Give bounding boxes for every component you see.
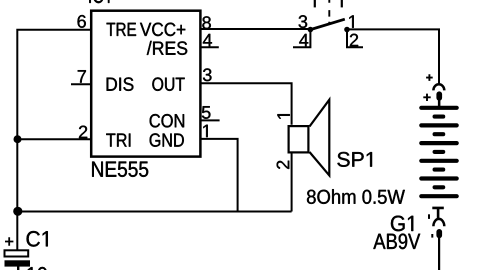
battery cell long bar 2 (421, 123, 456, 127)
battery terminal capsule top (436, 91, 442, 100)
battery plus sign 2 (423, 94, 430, 101)
switch pin label 4 (299, 34, 308, 46)
battery cell long bar 5 (421, 176, 456, 180)
switch linkage dashed line (328, 0, 330, 25)
wire switch pin1 to battery (347, 29, 439, 83)
switch pin 2 stub (347, 30, 363, 48)
speaker pin label 2 (rotated) (277, 161, 290, 169)
C1 value label (partial, cropped at bottom) (28, 267, 58, 270)
switch pin 4 stub (293, 30, 310, 48)
battery value label AB9V (373, 234, 420, 250)
battery cell short bar 2 (435, 132, 444, 136)
battery cell short bar 5 (435, 185, 444, 189)
pin 5 stub (200, 119, 220, 121)
C1 reference label (27, 231, 48, 247)
battery cell long bar 3 (421, 141, 456, 145)
node junction dot at rail/bottom wire (13, 207, 22, 216)
battery terminal stem top (438, 100, 441, 107)
SP1 reference label (337, 152, 372, 167)
NE555 value label (92, 162, 148, 177)
pin 4 stub (200, 46, 219, 48)
pin name TRE (107, 23, 136, 36)
battery clip tick 1 (428, 214, 430, 219)
wire pin8 to switch (200, 28, 312, 30)
pin number 2 (79, 126, 87, 139)
battery G1 plus sign top (426, 74, 433, 81)
pin number 8 (202, 16, 210, 29)
pin name TRI (106, 134, 130, 147)
switch S1 upper pole stub left (314, 0, 316, 7)
speaker SP1 box (289, 126, 309, 152)
pin name CON (150, 114, 184, 127)
speaker pin label 1 (rotated) (277, 114, 289, 118)
wire speaker pin2 down to bottom wire (291, 154, 293, 212)
op-amp U1 : IC1 NE555 body (91, 11, 200, 157)
switch contact dot pin 1 (344, 27, 350, 33)
pin number 6 (78, 15, 86, 28)
switch pin label 3 (299, 15, 308, 28)
capacitor C1 plus sign (5, 237, 13, 245)
battery cell short bar 4 (435, 168, 444, 172)
switch pin label 2 (350, 34, 358, 47)
battery bottom T terminal (432, 208, 444, 218)
pin number 5 (202, 106, 211, 119)
wire pin1 GND down to bottom wire (200, 139, 238, 212)
pin name DIS (107, 77, 134, 90)
battery clip arc bottom (433, 219, 444, 226)
speaker value label 8Ohm 0.5W (307, 189, 405, 204)
switch pin label 1 (349, 15, 353, 27)
battery terminal capsule bottom (436, 229, 442, 238)
battery cell short bar 1 (435, 115, 444, 119)
pin 7 stub (71, 83, 91, 85)
battery cell long bar 4 (421, 159, 456, 163)
pin name /RES (147, 41, 187, 55)
pin name GND (150, 133, 184, 146)
battery clip tick 2 (431, 234, 433, 238)
switch S1 upper pole stub right (341, 0, 343, 7)
battery cell short bar 3 (435, 150, 444, 154)
speaker SP1 horn (310, 100, 330, 176)
wire pin2 to rail (17, 138, 91, 140)
capacitor C1 top plate (hollow) (5, 250, 29, 256)
battery cell long bar 6 (421, 194, 456, 198)
battery clip arc top (433, 84, 444, 90)
bottom horizontal wire (17, 211, 291, 213)
wire below C1 (17, 267, 19, 270)
pin name OUT (152, 77, 184, 90)
capacitor C1 bottom plate (solid) (5, 260, 31, 266)
pin number 1 (203, 125, 207, 137)
wire pin3 to speaker pin1 (200, 83, 292, 125)
switch lever (310, 19, 344, 29)
pin number 4 (203, 34, 212, 46)
IC1 reference label (partial, cropped at top) (89, 0, 109, 3)
pin number 7 (78, 70, 86, 82)
wire battery bottom (438, 238, 440, 270)
pin name VCC+ (140, 23, 185, 36)
switch contact dot pin 3 (308, 27, 314, 33)
pin number 3 (203, 68, 212, 81)
node junction dot at rail/pin2 (14, 135, 22, 143)
battery cell long bar 1 (421, 106, 456, 110)
wire pin6 to left vertical rail (17, 30, 91, 250)
G1 reference label (391, 216, 413, 232)
